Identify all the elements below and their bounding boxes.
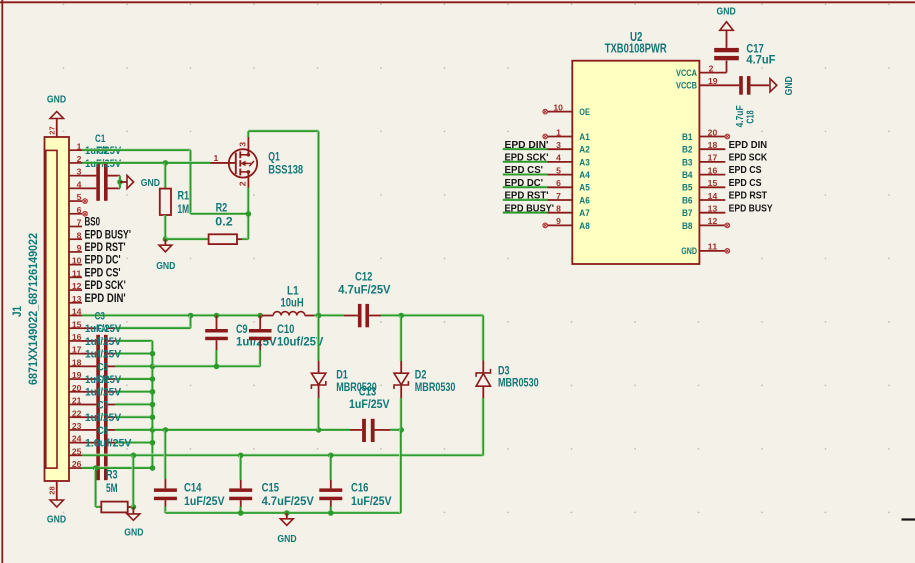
svg-text:OE: OE xyxy=(579,107,590,118)
svg-text:L1: L1 xyxy=(287,286,299,298)
svg-text:25: 25 xyxy=(72,446,82,456)
svg-text:10: 10 xyxy=(72,256,82,266)
svg-text:EPD SCK: EPD SCK xyxy=(729,152,768,164)
svg-text:BSS138: BSS138 xyxy=(268,165,303,177)
svg-text:D2: D2 xyxy=(415,369,427,381)
svg-text:MBR0530: MBR0530 xyxy=(498,378,539,390)
svg-text:26: 26 xyxy=(72,459,82,469)
svg-text:13: 13 xyxy=(72,294,82,304)
svg-text:C8: C8 xyxy=(98,425,108,437)
svg-text:B4: B4 xyxy=(682,170,693,181)
svg-text:A4: A4 xyxy=(579,170,590,181)
svg-text:R1: R1 xyxy=(178,190,190,202)
svg-text:4: 4 xyxy=(556,153,561,163)
svg-text:A6: A6 xyxy=(579,195,590,206)
svg-text:EPD DC': EPD DC' xyxy=(505,177,544,189)
svg-text:A1: A1 xyxy=(579,132,590,143)
svg-text:22: 22 xyxy=(72,408,82,418)
svg-text:A8: A8 xyxy=(579,221,590,232)
svg-text:24: 24 xyxy=(72,434,82,444)
svg-text:5: 5 xyxy=(556,165,561,175)
svg-text:EPD DIN': EPD DIN' xyxy=(505,139,549,151)
svg-text:GND: GND xyxy=(783,76,795,96)
svg-text:C6: C6 xyxy=(98,374,108,386)
svg-text:20: 20 xyxy=(708,127,718,137)
svg-text:D3: D3 xyxy=(498,365,510,377)
svg-text:MBR0530: MBR0530 xyxy=(415,382,456,394)
svg-text:28: 28 xyxy=(48,486,57,494)
svg-text:B8: B8 xyxy=(682,221,693,232)
svg-text:3: 3 xyxy=(556,140,561,150)
svg-text:GND: GND xyxy=(141,177,161,189)
svg-text:B6: B6 xyxy=(682,195,693,206)
svg-text:C7: C7 xyxy=(98,399,108,411)
svg-text:EPD SCK': EPD SCK' xyxy=(505,152,549,164)
svg-text:R2: R2 xyxy=(216,202,228,214)
svg-text:VCCB: VCCB xyxy=(676,81,697,92)
svg-text:6: 6 xyxy=(77,205,82,215)
svg-text:9: 9 xyxy=(77,243,82,253)
svg-text:B1: B1 xyxy=(682,132,693,143)
svg-text:12: 12 xyxy=(72,281,82,291)
svg-text:1uF/25V: 1uF/25V xyxy=(85,158,122,170)
svg-text:4.7uF: 4.7uF xyxy=(746,55,775,67)
svg-text:10: 10 xyxy=(553,102,563,112)
svg-text:27: 27 xyxy=(48,126,57,134)
svg-text:0.2: 0.2 xyxy=(215,217,232,229)
svg-text:A7: A7 xyxy=(579,208,590,219)
svg-text:J1: J1 xyxy=(12,305,24,317)
svg-text:10uH: 10uH xyxy=(281,298,304,310)
svg-text:C16: C16 xyxy=(351,482,368,494)
svg-text:17: 17 xyxy=(72,345,82,355)
svg-text:3: 3 xyxy=(238,142,248,147)
svg-text:EPD CS': EPD CS' xyxy=(505,164,544,176)
svg-text:B7: B7 xyxy=(682,208,693,219)
svg-text:18: 18 xyxy=(708,140,718,150)
svg-text:GND: GND xyxy=(124,527,144,539)
svg-text:C1: C1 xyxy=(95,133,105,145)
svg-text:9: 9 xyxy=(556,216,561,226)
svg-text:C15: C15 xyxy=(262,482,280,494)
svg-text:EPD DIN': EPD DIN' xyxy=(85,291,126,305)
svg-text:1: 1 xyxy=(556,127,561,137)
svg-text:21: 21 xyxy=(72,396,82,406)
svg-text:1: 1 xyxy=(214,153,219,163)
svg-text:1: 1 xyxy=(77,141,82,151)
svg-text:GND: GND xyxy=(47,514,67,526)
svg-text:8: 8 xyxy=(77,230,82,240)
svg-text:EPD RST: EPD RST xyxy=(729,190,768,202)
svg-text:1M: 1M xyxy=(178,204,190,216)
svg-text:1.0uf/25V: 1.0uf/25V xyxy=(85,438,132,450)
svg-text:1uF/25V: 1uF/25V xyxy=(184,496,225,508)
svg-text:D1: D1 xyxy=(336,369,348,381)
svg-text:13: 13 xyxy=(708,204,718,214)
svg-text:C5: C5 xyxy=(98,361,108,373)
svg-text:1uF/25V: 1uF/25V xyxy=(349,399,390,411)
svg-text:C2: C2 xyxy=(98,145,108,157)
svg-text:1uf/25V: 1uf/25V xyxy=(85,336,122,348)
svg-text:4.7uF/25V: 4.7uF/25V xyxy=(338,284,391,296)
svg-text:EPD CS: EPD CS xyxy=(729,164,762,176)
svg-text:6: 6 xyxy=(556,178,561,188)
svg-text:GND: GND xyxy=(47,94,67,106)
svg-text:1uf/25V: 1uf/25V xyxy=(85,349,122,361)
svg-text:16: 16 xyxy=(708,165,718,175)
svg-text:C10: C10 xyxy=(277,324,294,336)
svg-text:A2: A2 xyxy=(579,145,590,156)
svg-text:C14: C14 xyxy=(184,482,202,494)
svg-text:15: 15 xyxy=(72,319,82,329)
svg-text:B3: B3 xyxy=(682,157,693,168)
svg-text:7: 7 xyxy=(556,191,561,201)
svg-text:EPD RST': EPD RST' xyxy=(505,190,549,202)
svg-text:1uF/25V: 1uF/25V xyxy=(351,496,392,508)
svg-text:3: 3 xyxy=(77,167,82,177)
svg-text:2: 2 xyxy=(238,181,248,186)
svg-text:6871XX149022_687126149022: 6871XX149022_687126149022 xyxy=(28,233,40,385)
svg-text:GND: GND xyxy=(681,246,697,257)
svg-text:C18: C18 xyxy=(745,110,757,123)
svg-text:C4: C4 xyxy=(98,323,109,335)
svg-text:7: 7 xyxy=(77,218,82,228)
svg-text:20: 20 xyxy=(72,383,82,393)
svg-text:11: 11 xyxy=(708,242,718,252)
svg-text:8: 8 xyxy=(556,204,561,214)
svg-text:TXB0108PWR: TXB0108PWR xyxy=(605,42,667,56)
svg-text:EPD DIN: EPD DIN xyxy=(729,139,768,151)
svg-text:Q1: Q1 xyxy=(268,152,280,164)
svg-text:12: 12 xyxy=(708,216,718,226)
svg-text:5: 5 xyxy=(77,192,82,202)
svg-text:11: 11 xyxy=(72,268,82,278)
svg-text:4.7uF/25V: 4.7uF/25V xyxy=(262,496,315,508)
svg-text:14: 14 xyxy=(708,191,718,201)
svg-text:10uf/25V: 10uf/25V xyxy=(277,337,324,349)
svg-text:23: 23 xyxy=(72,421,82,431)
svg-text:EPD BUSY: EPD BUSY xyxy=(729,202,773,214)
svg-text:15: 15 xyxy=(708,178,718,188)
svg-text:A5: A5 xyxy=(579,183,590,194)
svg-text:C9: C9 xyxy=(236,324,248,336)
svg-text:1uf/25V: 1uf/25V xyxy=(85,412,122,424)
svg-text:C12: C12 xyxy=(355,271,372,283)
svg-text:B5: B5 xyxy=(682,183,693,194)
svg-text:GND: GND xyxy=(717,5,737,17)
svg-text:4: 4 xyxy=(77,179,82,189)
svg-text:16: 16 xyxy=(72,332,82,342)
svg-text:14: 14 xyxy=(72,307,82,317)
svg-text:17: 17 xyxy=(708,153,718,163)
svg-text:R3: R3 xyxy=(106,469,118,481)
svg-text:19: 19 xyxy=(72,370,82,380)
svg-text:18: 18 xyxy=(72,357,82,367)
svg-text:VCCA: VCCA xyxy=(676,68,697,79)
svg-text:B2: B2 xyxy=(682,145,693,156)
svg-text:5M: 5M xyxy=(106,483,118,495)
svg-text:MBR0530: MBR0530 xyxy=(336,382,377,394)
svg-text:C3: C3 xyxy=(95,310,105,322)
svg-text:GND: GND xyxy=(156,260,176,272)
svg-text:A3: A3 xyxy=(579,157,590,168)
svg-text:1uf/25V: 1uf/25V xyxy=(85,387,122,399)
svg-text:EPD CS: EPD CS xyxy=(729,177,762,189)
svg-text:2: 2 xyxy=(77,154,82,164)
svg-text:GND: GND xyxy=(277,533,297,545)
svg-text:EPD BUSY': EPD BUSY' xyxy=(505,202,555,214)
